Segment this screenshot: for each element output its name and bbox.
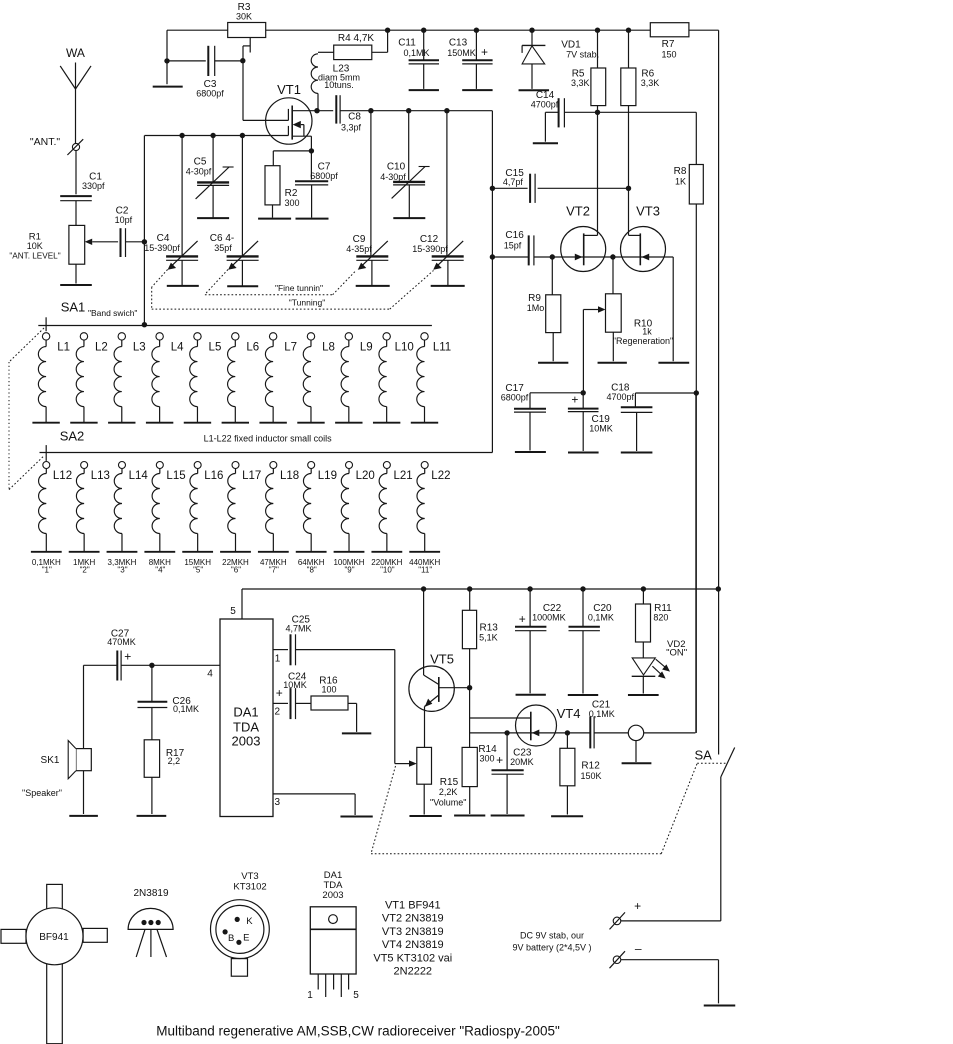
svg-text:"6": "6" [231,566,241,575]
svg-text:VT2: VT2 [566,204,590,219]
svg-text:1Mo: 1Mo [527,303,545,313]
svg-text:0,1MK: 0,1MK [588,612,614,622]
svg-text:"9": "9" [344,566,354,575]
svg-text:DC 9V stab, our: DC 9V stab, our [520,931,584,941]
svg-text:9V battery (2*4,5V ): 9V battery (2*4,5V ) [512,943,591,953]
svg-text:L14: L14 [129,470,149,482]
svg-text:C10: C10 [387,162,406,173]
svg-text:4-30pf: 4-30pf [186,167,212,177]
svg-text:10MK: 10MK [589,423,613,433]
svg-text:VT4: VT4 [557,706,581,721]
svg-text:L2: L2 [95,342,108,354]
svg-text:VT5: VT5 [430,652,454,667]
svg-text:"5": "5" [193,566,203,575]
svg-text:E: E [243,933,249,944]
svg-text:L9: L9 [360,342,373,354]
svg-text:10MK: 10MK [283,680,307,690]
svg-text:3,3K: 3,3K [641,78,660,88]
svg-text:BF941: BF941 [39,932,69,943]
svg-text:L11: L11 [433,342,451,354]
svg-text:2,2K: 2,2K [439,787,458,797]
svg-text:L1: L1 [57,342,70,354]
svg-text:"Tunning": "Tunning" [289,298,325,308]
svg-text:SA: SA [695,747,713,762]
svg-text:+: + [481,45,488,59]
svg-text:10pf: 10pf [115,215,133,225]
svg-text:"ANT. LEVEL": "ANT. LEVEL" [9,252,60,261]
svg-text:10K: 10K [27,241,43,251]
svg-text:+: + [124,650,131,664]
svg-text:10tuns.: 10tuns. [324,80,354,90]
svg-text:VT1 BF941: VT1 BF941 [385,900,441,912]
svg-text:3,3K: 3,3K [571,78,590,88]
svg-text:15pf: 15pf [504,240,522,250]
svg-text:2003: 2003 [232,734,261,749]
svg-text:15-390pf: 15-390pf [412,244,448,254]
svg-text:SK1: SK1 [41,755,60,766]
svg-text:5,1K: 5,1K [479,633,498,643]
svg-text:30K: 30K [236,12,252,22]
svg-text:"7": "7" [269,566,279,575]
svg-text:L8: L8 [322,342,335,354]
svg-text:300: 300 [284,198,299,208]
svg-text:+: + [276,686,283,700]
svg-text:470MK: 470MK [107,637,136,647]
svg-text:KT3102: KT3102 [233,881,266,892]
svg-text:2: 2 [275,707,281,718]
svg-text:2003: 2003 [322,890,343,901]
svg-text:4,7pf: 4,7pf [503,177,524,187]
svg-text:K: K [246,916,253,927]
svg-text:6800pf: 6800pf [196,89,224,99]
svg-text:L16: L16 [204,470,223,482]
svg-text:"Fine tunnin": "Fine tunnin" [275,283,323,293]
svg-text:5: 5 [230,606,236,617]
svg-text:DA1: DA1 [233,705,258,720]
svg-text:7V stab.: 7V stab. [566,50,599,60]
svg-text:+: + [571,392,578,406]
svg-text:6800pf: 6800pf [501,392,529,402]
svg-text:"10": "10" [380,566,395,575]
svg-text:4-30pf: 4-30pf [380,172,406,182]
svg-text:C13: C13 [449,38,468,49]
svg-text:15-390pf: 15-390pf [144,243,180,253]
svg-text:L13: L13 [91,470,110,482]
svg-text:1000MK: 1000MK [532,612,566,622]
svg-text:L4: L4 [171,342,184,354]
svg-text:2N3819: 2N3819 [133,888,168,899]
svg-text:4,7MK: 4,7MK [285,623,311,633]
svg-text:SA2: SA2 [60,429,85,444]
svg-text:WA: WA [66,46,85,60]
svg-text:+: + [519,612,526,626]
svg-text:1K: 1K [675,177,686,187]
svg-text:150: 150 [661,50,676,60]
svg-text:"4": "4" [155,566,165,575]
svg-text:–: – [635,941,642,955]
svg-text:"11": "11" [418,566,432,575]
svg-text:"Volume": "Volume" [430,797,466,807]
svg-text:100: 100 [321,685,336,695]
svg-text:20MK: 20MK [510,757,534,767]
svg-text:"3": "3" [117,566,127,575]
svg-text:"Band swich": "Band swich" [88,308,138,318]
svg-text:L20: L20 [356,470,375,482]
svg-text:+: + [634,899,641,913]
svg-text:VT1: VT1 [277,82,301,97]
svg-text:L1-L22 fixed inductor small co: L1-L22 fixed inductor small coils [204,434,333,444]
svg-text:R4 4,7K: R4 4,7K [338,33,374,44]
svg-text:"Speaker": "Speaker" [22,788,62,798]
svg-text:3: 3 [275,797,281,808]
svg-text:L5: L5 [209,342,222,354]
svg-text:C8: C8 [348,112,361,123]
svg-text:300: 300 [479,753,494,763]
svg-text:1: 1 [307,990,313,1001]
svg-text:35pf: 35pf [214,243,232,253]
svg-text:4700pf: 4700pf [607,392,635,402]
svg-text:L21: L21 [393,470,412,482]
svg-text:L22: L22 [431,470,450,482]
svg-text:L12: L12 [53,470,72,482]
svg-text:L6: L6 [246,342,259,354]
svg-text:L3: L3 [133,342,146,354]
svg-text:150MK: 150MK [447,48,476,58]
svg-text:6800pf: 6800pf [310,171,338,181]
svg-text:B: B [228,933,234,944]
svg-text:4: 4 [207,669,213,680]
svg-text:820: 820 [653,612,668,622]
svg-text:SA1: SA1 [61,300,86,315]
svg-text:4700pf: 4700pf [531,99,559,109]
svg-text:C11: C11 [398,38,416,49]
svg-text:L15: L15 [166,470,185,482]
svg-text:2N2222: 2N2222 [394,966,433,978]
svg-text:"2": "2" [80,566,90,575]
svg-text:"Regeneration": "Regeneration" [613,336,673,346]
svg-text:R12: R12 [581,760,600,771]
svg-text:L10: L10 [395,342,414,354]
svg-text:"ANT.": "ANT." [30,136,60,148]
svg-text:150K: 150K [580,771,601,781]
svg-text:1: 1 [275,654,281,665]
svg-text:3,3pf: 3,3pf [341,123,362,133]
svg-text:VT4 2N3819: VT4 2N3819 [382,939,444,951]
svg-text:0,1MK: 0,1MK [589,709,615,719]
svg-text:VT5 KT3102 vai: VT5 KT3102 vai [373,952,452,964]
svg-text:VT3: VT3 [636,204,660,219]
svg-text:"ON": "ON" [666,647,687,658]
svg-text:L17: L17 [242,470,261,482]
svg-text:L7: L7 [284,342,297,354]
svg-text:Multiband regenerative AM,SSB,: Multiband regenerative AM,SSB,CW radiore… [156,1024,560,1039]
svg-text:VT2 2N3819: VT2 2N3819 [382,913,444,925]
svg-text:+: + [496,753,503,767]
svg-text:"8": "8" [307,566,317,575]
svg-text:5: 5 [353,990,359,1001]
svg-text:4-35pf: 4-35pf [346,244,372,254]
svg-text:"1": "1" [42,566,52,575]
svg-text:TDA: TDA [233,720,259,735]
svg-text:2,2: 2,2 [168,756,181,766]
svg-text:0,1MK: 0,1MK [173,704,199,714]
svg-text:0,1MK: 0,1MK [403,48,429,58]
svg-text:L19: L19 [318,470,337,482]
svg-text:R8: R8 [674,166,687,177]
svg-text:L18: L18 [280,470,299,482]
svg-text:R7: R7 [662,39,675,50]
svg-text:VT3 2N3819: VT3 2N3819 [382,926,444,938]
svg-text:330pf: 330pf [82,181,105,191]
